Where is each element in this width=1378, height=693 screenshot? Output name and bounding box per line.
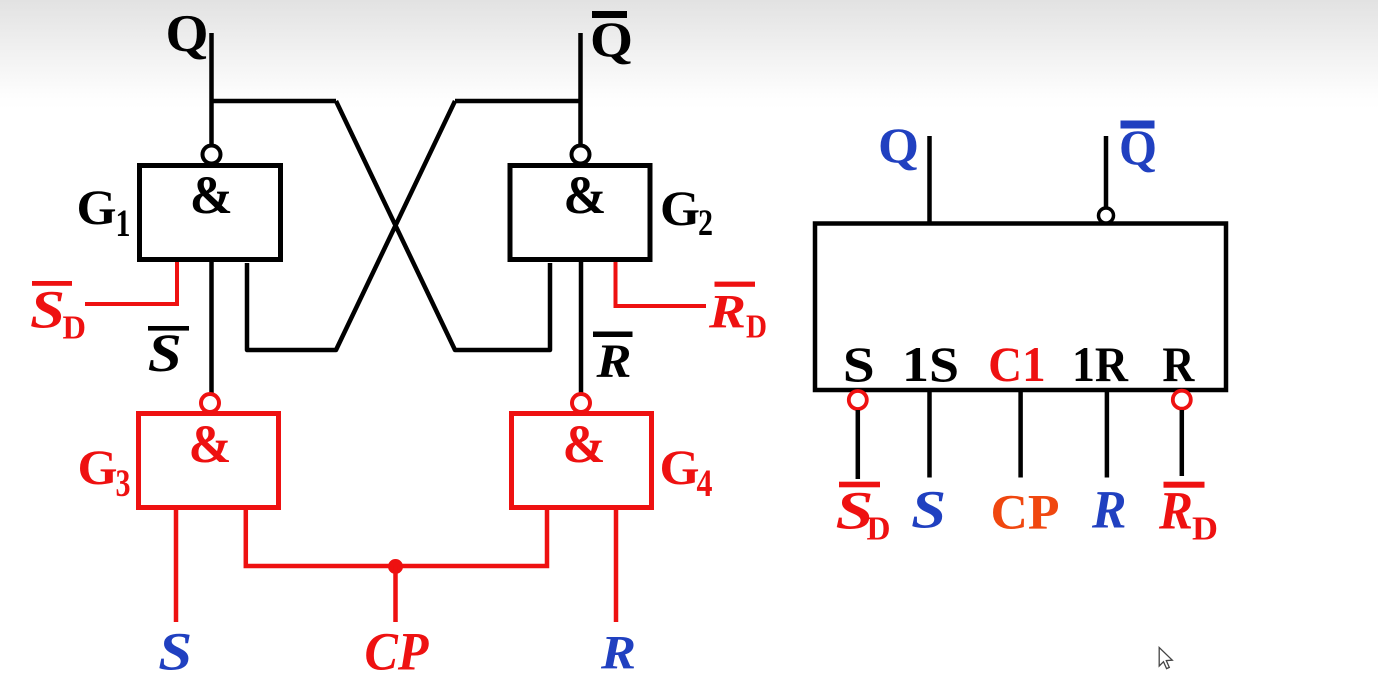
wire cross-couple Qbar to G1 diagonal [247,101,455,350]
svg-text:R: R [600,626,636,679]
wire pin SDbar [856,410,861,479]
IC block symbol box [815,224,1226,391]
node RDbar (block) label [1158,481,1218,548]
svg-text:&: & [563,165,606,225]
label G2 [660,180,713,244]
node CP input label [365,621,430,681]
svg-text:G: G [78,439,118,495]
wire CP stub [393,566,398,622]
wire R input to G4 [614,508,619,622]
svg-text:CP: CP [365,621,430,681]
svg-text:Q: Q [166,5,209,63]
svg-text:Q: Q [1119,119,1157,175]
svg-text:3: 3 [116,462,131,505]
node R input label [600,626,636,679]
gate G3 output bubble [201,394,219,412]
svg-text:&: & [563,414,606,474]
svg-text:D: D [867,511,891,548]
svg-text:R: R [1162,336,1195,392]
pin label C1 [988,336,1046,392]
svg-text:R: R [1091,480,1126,540]
pin label S [843,336,875,392]
label G4 [660,439,713,505]
svg-text:G: G [660,180,700,236]
svg-text:Q: Q [590,11,633,67]
junction CP node dot [388,559,403,574]
gate G1 box [140,166,281,260]
node S (block) label [911,480,946,540]
wire pin RDbar [1180,410,1185,476]
wire Sbar G1 to G3 [209,262,214,397]
svg-text:R: R [708,286,746,339]
wire RDbar to G2 [616,262,707,306]
svg-text:2: 2 [698,203,713,244]
node Q (left diagram output label) [166,5,209,63]
wire Q vertical [209,33,214,148]
wire S input to G3 [174,508,179,622]
gate G4 box [512,414,652,508]
mouse cursor [1159,648,1172,669]
svg-text:R: R [595,335,631,388]
pin SDbar inversion bubble [849,391,867,409]
svg-text:1S: 1S [902,336,959,392]
gate G1 output bubble [203,146,221,164]
pin label R [1162,336,1195,392]
svg-text:CP: CP [991,484,1060,540]
pin RDbar inversion bubble [1173,391,1191,409]
node CP (block) label [991,484,1060,540]
svg-text:S: S [30,280,65,340]
wire CP rail [246,508,547,566]
svg-text:Q: Q [878,117,919,173]
gate G4 output bubble [572,394,590,412]
Qbar inversion bubble (block) [1099,208,1114,223]
node Qbar (block) label [1119,119,1157,175]
node Sbar label [148,323,189,383]
wire Qbar branch horizontal [455,99,583,104]
wire pin 1S [927,390,932,478]
pin label 1R [1072,336,1129,392]
wire Q pin (block) [927,136,932,223]
gate G2 function label & [563,165,606,225]
pin label 1S [902,336,959,392]
gate G1 function label & [190,165,233,225]
svg-text:S: S [843,336,875,392]
gate G2 output bubble [572,146,590,164]
node S input label [158,622,192,682]
gate G3 box [139,414,279,508]
svg-text:&: & [190,165,233,225]
node SDbar (block) label [836,481,891,548]
node Rbar label [593,332,633,389]
wire Qbar vertical [578,33,583,148]
svg-text:S: S [911,480,946,540]
label G3 [78,439,131,505]
svg-text:G: G [77,179,117,235]
wire Qbar pin (block) [1104,136,1109,208]
gate G2 box [510,166,650,260]
svg-text:C1: C1 [988,336,1046,392]
svg-text:4: 4 [697,462,713,505]
svg-text:D: D [63,310,87,347]
svg-text:D: D [746,309,767,346]
wire Rbar G2 to G4 [579,262,584,397]
wire pin 1R [1105,390,1110,478]
wire Q branch horizontal [210,99,337,104]
svg-text:D: D [1192,511,1218,548]
node R (block) label [1091,480,1126,540]
svg-text:&: & [189,414,232,474]
wire SDbar to G1 [85,262,177,304]
node Q (block) label [878,117,919,173]
svg-text:1: 1 [116,202,131,245]
gate G4 function label & [563,414,606,474]
node RDbar input label [708,282,767,346]
svg-text:S: S [158,622,192,682]
wire cross-couple Q to G2 diagonal [336,101,550,350]
label G1 [77,179,131,245]
svg-text:1R: 1R [1072,336,1129,392]
svg-text:G: G [660,439,700,495]
wire pin C1 [1018,390,1023,478]
svg-text:S: S [148,323,182,383]
node Qbar (left diagram output label) [590,11,633,67]
svg-text:R: R [1158,481,1193,541]
gate G3 function label & [189,414,232,474]
node SDbar input label [30,280,86,347]
